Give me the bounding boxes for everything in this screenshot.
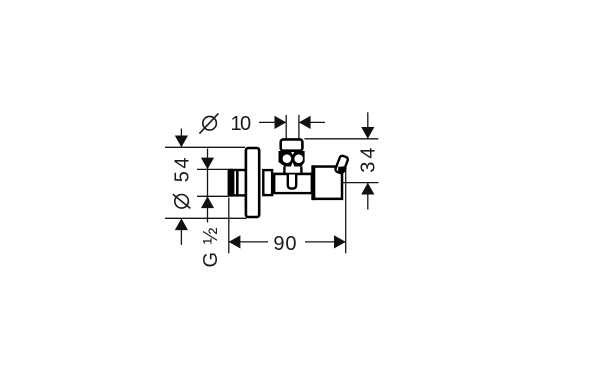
svg-text:½: ½ [200, 227, 222, 244]
svg-text:0: 0 [240, 113, 251, 135]
svg-text:3: 3 [358, 162, 380, 173]
svg-text:5: 5 [171, 171, 193, 182]
svg-text:4: 4 [171, 157, 193, 168]
svg-text:G: G [200, 252, 222, 268]
svg-text:9: 9 [273, 233, 284, 255]
svg-text:4: 4 [358, 148, 380, 159]
svg-text:0: 0 [285, 233, 296, 255]
